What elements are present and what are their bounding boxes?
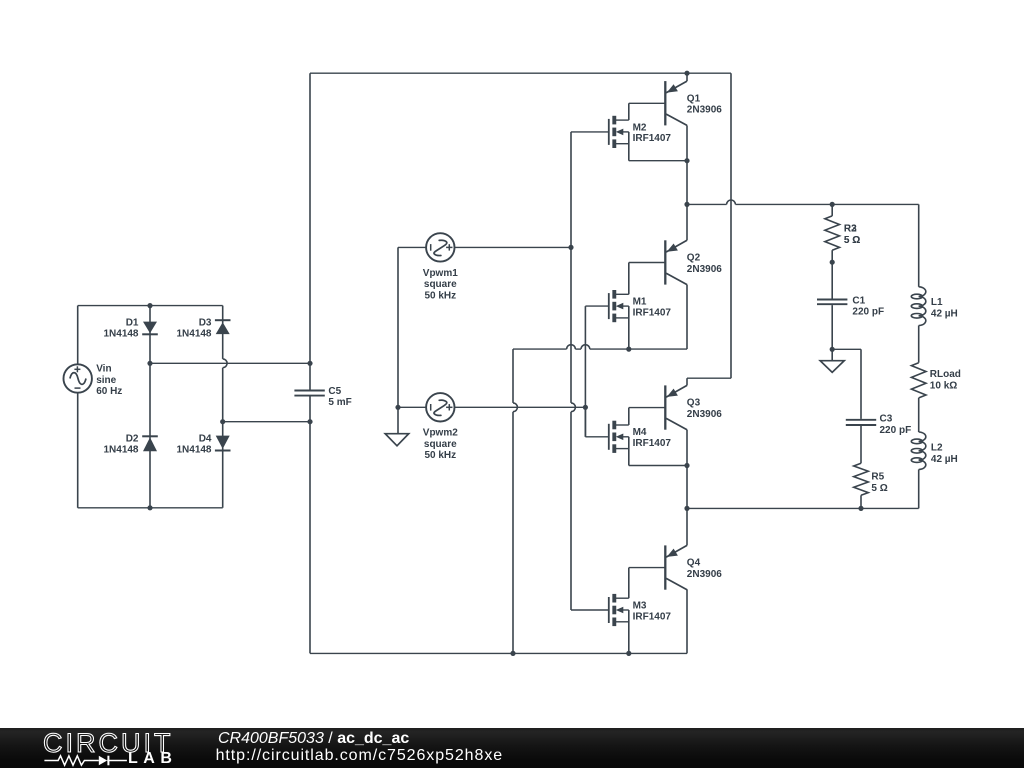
label Vpwm1 (423, 268, 458, 302)
wire low node to C5 rail (223, 421, 310, 423)
capacitor C3 220pF (846, 420, 876, 425)
svg-text:M4: M4 (633, 427, 647, 438)
wire M2-M3 gate rail (571, 132, 575, 610)
wire M2 source down (629, 132, 687, 161)
svg-text:D2: D2 (126, 433, 139, 444)
svg-text:R5: R5 (871, 472, 884, 483)
node R2 bottom junction (830, 260, 835, 265)
resistor R5 5ohm (854, 463, 869, 508)
capacitor C1 220pF (817, 300, 847, 305)
svg-text:IRF1407: IRF1407 (633, 307, 672, 318)
wire R2 to C1 (831, 262, 833, 298)
label R2 R3 (844, 224, 860, 246)
wire M3 drain to Q4 base (629, 568, 666, 599)
wire Q2 collector return rail (513, 349, 517, 653)
svg-text:L2: L2 (931, 443, 943, 454)
svg-text:sine: sine (96, 375, 116, 386)
mosfet M1 IRF1407 (585, 290, 628, 322)
wire Vpwm1 right lead (455, 246, 572, 248)
label M1 (633, 297, 672, 319)
wire C3 to R5 (860, 426, 862, 463)
wire M2 drain to Q1 base (629, 103, 666, 120)
node C5 rail mid (307, 361, 312, 366)
wire M1 drain to Q2 base (629, 263, 666, 295)
label C3 (880, 413, 912, 436)
label Q3 (687, 398, 722, 420)
wire M4 gate rail link (584, 407, 586, 437)
svg-text:50 kHz: 50 kHz (424, 291, 456, 302)
wire M4 source down (629, 437, 687, 466)
capacitor C5 5mF (294, 391, 324, 396)
wire Q2 collector (686, 285, 688, 350)
svg-text:C3: C3 (880, 413, 893, 424)
label R5 (871, 472, 887, 494)
mosfet M4 IRF1407 (585, 421, 628, 453)
mosfet M2 IRF1407 (571, 116, 629, 148)
node bridge top junction (147, 303, 152, 308)
wire Q2 emitter (686, 204, 688, 240)
wire Q3 collector (686, 430, 688, 546)
CircuitLab logo underline resistor-diode (42, 753, 177, 767)
voltage source Vpwm1 square 50kHz (426, 233, 454, 261)
label RLoad (930, 369, 961, 391)
svg-text:D4: D4 (199, 433, 212, 444)
node output A junction (684, 202, 689, 207)
node Vpwm2 ground junction (395, 405, 400, 410)
label Vin sine 60 Hz (96, 364, 122, 397)
wire Q2 collector node (513, 345, 687, 349)
wire top rail (310, 72, 731, 74)
svg-text:5 mF: 5 mF (328, 397, 351, 408)
wire right rail top (918, 204, 920, 286)
svg-text:2N3906: 2N3906 (687, 105, 722, 116)
svg-text:42 µH: 42 µH (931, 308, 958, 319)
wire bottom rail (310, 652, 687, 654)
svg-text:C1: C1 (852, 295, 865, 306)
label D2 (103, 433, 138, 455)
voltage source Vin sine 60Hz (63, 364, 91, 392)
wire ground node to C3 (832, 349, 861, 419)
wire output B (687, 507, 919, 509)
wire Vpwm left rail (397, 247, 399, 407)
wire mid node to C5 rail (150, 362, 310, 364)
voltage source Vpwm2 square 50kHz (426, 393, 454, 421)
svg-text:L1: L1 (931, 297, 943, 308)
svg-text:220 pF: 220 pF (852, 307, 884, 318)
label Q2 (687, 253, 722, 275)
svg-text:square: square (424, 439, 457, 450)
svg-text:IRF1407: IRF1407 (633, 612, 672, 623)
diode D3 1N4148 (215, 320, 231, 334)
wire Vpwm1 left lead (398, 246, 426, 248)
inductor L1 42uH (911, 287, 926, 326)
svg-text:D3: D3 (199, 318, 212, 329)
wire RLoad to L2 (918, 398, 920, 432)
node Q1 emitter junction (684, 71, 689, 76)
svg-text:5 Ω: 5 Ω (844, 235, 860, 246)
label D4 (176, 433, 211, 455)
ground below C1 (820, 349, 844, 372)
label Q4 (687, 558, 722, 580)
CircuitLab logo LAB (128, 751, 177, 767)
svg-text:Q1: Q1 (687, 93, 701, 104)
ground below Vpwm2 (385, 407, 409, 446)
footer url (216, 748, 503, 764)
resistor R2 R3 5ohm (825, 204, 840, 262)
diode D4 1N4148 (215, 436, 231, 451)
wire M1-M4 gate rail (584, 306, 586, 437)
svg-text:42 µH: 42 µH (931, 454, 958, 465)
wire Vin bottom (77, 393, 79, 508)
label Vpwm2 (423, 428, 458, 462)
label L1 (931, 297, 958, 319)
wire M4 drain to Q3 base (629, 408, 666, 425)
svg-text:IRF1407: IRF1407 (633, 133, 672, 144)
wire M1 source down (628, 306, 630, 349)
label L2 (931, 443, 958, 465)
label C5 (328, 386, 351, 408)
resistor RLoad 10kohm (911, 363, 926, 398)
wire C5 rail lower (309, 396, 311, 653)
svg-text:Vpwm1: Vpwm1 (423, 268, 458, 279)
node Vpwm2 gate rail junction (583, 405, 588, 410)
wire output A (687, 200, 919, 204)
label M3 (633, 600, 672, 622)
node return rail bottom (510, 651, 515, 656)
label C1 (852, 295, 884, 317)
svg-text:M2: M2 (633, 122, 647, 133)
svg-text:Q2: Q2 (687, 253, 701, 264)
node C5 rail low (307, 419, 312, 424)
svg-text:10 kΩ: 10 kΩ (930, 380, 957, 391)
svg-text:50 kHz: 50 kHz (424, 450, 456, 461)
svg-text:Q4: Q4 (687, 558, 701, 569)
svg-text:Q3: Q3 (687, 398, 701, 409)
svg-text:5 Ω: 5 Ω (871, 483, 887, 494)
svg-text:2N3906: 2N3906 (687, 264, 722, 275)
node Q3 collector junction (684, 463, 689, 468)
wire M3 source down (628, 610, 630, 653)
svg-text:C5: C5 (328, 386, 341, 397)
wire L1 to RLoad (918, 326, 920, 363)
node Q1 collector junction (684, 158, 689, 163)
mosfet M3 IRF1407 (571, 594, 629, 626)
CircuitLab logo CIRCUIT (43, 730, 174, 757)
node R5 bottom junction (858, 506, 863, 511)
node bridge mid junction (147, 361, 152, 366)
label M2 (633, 122, 672, 144)
wire D3-D4 rail (223, 306, 227, 508)
diode D2 1N4148 (142, 436, 158, 451)
svg-text:R3: R3 (844, 224, 857, 235)
node Vpwm1 gate rail junction (568, 245, 573, 250)
svg-text:RLoad: RLoad (930, 369, 961, 380)
label D3 (176, 318, 211, 340)
node R2 top junction (830, 202, 835, 207)
label Q1 (687, 93, 722, 115)
wire C5 rail upper (309, 73, 311, 390)
node bridge bottom junction (147, 505, 152, 510)
wire D1-D2 rail (149, 306, 151, 508)
svg-text:1N4148: 1N4148 (103, 329, 138, 340)
svg-text:2N3906: 2N3906 (687, 569, 722, 580)
wire Vpwm2 left lead (398, 406, 426, 408)
wire right rail bottom (918, 470, 920, 509)
wire bridge top (78, 305, 223, 307)
wire Vin top (77, 306, 79, 365)
wire bridge bottom (78, 507, 223, 509)
node output B junction (684, 506, 689, 511)
diode D1 1N4148 (142, 322, 158, 335)
svg-text:D1: D1 (126, 318, 139, 329)
wire Vpwm2 right lead (455, 406, 586, 408)
wire Q4 collector (686, 589, 688, 653)
svg-text:1N4148: 1N4148 (176, 329, 211, 340)
svg-text:60 Hz: 60 Hz (96, 386, 122, 397)
label M4 (633, 427, 672, 449)
node M3 source junction (626, 651, 631, 656)
svg-text:1N4148: 1N4148 (103, 444, 138, 455)
svg-text:Vin: Vin (96, 364, 111, 375)
svg-text:IRF1407: IRF1407 (633, 438, 672, 449)
transistor Q3 2N3906 (665, 385, 687, 429)
transistor Q2 2N3906 (665, 240, 687, 284)
svg-text:M1: M1 (633, 297, 647, 308)
node D3-D4 low junction (220, 419, 225, 424)
wire Q1 collector (686, 125, 688, 204)
svg-text:1N4148: 1N4148 (176, 444, 211, 455)
node M1 source junction (626, 347, 631, 352)
inductor L2 42uH (911, 432, 926, 470)
wire C1 to ground node (831, 305, 833, 349)
label D1 (103, 318, 138, 340)
wire Q3 emitter feed (687, 73, 731, 385)
transistor Q1 2N3906 (665, 81, 687, 125)
svg-text:220 pF: 220 pF (880, 425, 912, 436)
svg-text:2N3906: 2N3906 (687, 409, 722, 420)
node C1 ground junction (830, 347, 835, 352)
svg-text:Vpwm2: Vpwm2 (423, 428, 458, 439)
footer title CR400BF5033 / ac_dc_ac (218, 731, 409, 747)
wire Q1 emitter (686, 73, 688, 81)
svg-text:square: square (424, 279, 457, 290)
svg-text:M3: M3 (633, 600, 647, 611)
transistor Q4 2N3906 (665, 545, 687, 589)
